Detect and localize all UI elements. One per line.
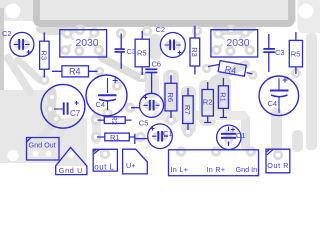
svg-text:C3: C3: [127, 47, 137, 56]
svg-text:R4: R4: [69, 67, 81, 77]
capacitor C1 right symbol: [228, 127, 230, 147]
svg-text:C2: C2: [156, 25, 166, 34]
svg-text:C1: C1: [163, 129, 173, 138]
copper heatsink bracket trace: [37, 0, 292, 24]
wire R4 right leads: [208, 65, 253, 75]
svg-text:R2: R2: [203, 98, 213, 107]
wire R5 left leads: [141, 31, 143, 75]
wire R6 leads: [170, 75, 172, 118]
copper IC pad stubs: [65, 33, 249, 51]
svg-text:C4: C4: [96, 100, 106, 109]
svg-text:R6: R6: [166, 92, 175, 102]
svg-text:R5: R5: [291, 50, 301, 59]
resistor R6: [165, 83, 177, 111]
connector Gnd Out box: [27, 138, 60, 161]
svg-text:R3: R3: [40, 50, 49, 60]
copper bottom-left slab: [0, 90, 50, 163]
wire R2 left leads: [98, 119, 132, 121]
connector out L box: [93, 149, 117, 171]
connector In box: [169, 150, 259, 176]
svg-text:out L: out L: [94, 162, 114, 171]
copper donut pads: [14, 25, 301, 161]
svg-text:C2: C2: [2, 29, 12, 38]
copper traces middle resistor bars: [163, 70, 179, 124]
capacitor C2 left symbol: [14, 39, 31, 54]
capacitor C4 left symbol: [107, 78, 109, 93]
svg-text:R3: R3: [190, 47, 199, 57]
copper pad strip under right IC: [213, 27, 256, 35]
capacitor C6 left symbol: [145, 68, 157, 70]
capacitor C2 right symbol: [165, 44, 181, 46]
capacitor C4 right symbol: [278, 79, 280, 90]
resistor R2 right: [202, 90, 213, 117]
op-amp IC 2030 left: [60, 30, 107, 57]
copper pad strip under left IC: [36, 27, 79, 35]
copper diagonal trace under C4 left: [102, 58, 140, 78]
svg-text:C1: C1: [236, 131, 246, 140]
wire C3 left bottom lead: [120, 52, 122, 68]
op-amp IC 2030 right: [211, 30, 258, 57]
resistor R1 left horizontal: [105, 133, 130, 141]
svg-text:In L+: In L+: [171, 165, 189, 174]
svg-text:2030: 2030: [76, 37, 99, 49]
capacitor C1 left circle: [148, 124, 173, 149]
resistor R5 left: [135, 39, 149, 67]
electrolytic C7 circle: [41, 84, 85, 128]
resistor R3 right: [190, 38, 200, 66]
svg-text:2030: 2030: [227, 37, 250, 49]
svg-text:Gnd U: Gnd U: [59, 166, 83, 175]
resistor R2 left horizontal: [104, 117, 125, 124]
resistor R7: [183, 96, 194, 124]
svg-text:Out R: Out R: [267, 161, 289, 170]
copper top gray slab: [0, 0, 296, 21]
svg-text:C4: C4: [268, 99, 278, 108]
copper left edge band: [0, 8, 4, 162]
capacitor C5 symbol: [144, 104, 160, 106]
capacitor C2 left circle: [10, 32, 34, 56]
svg-text:U+: U+: [126, 161, 135, 170]
capacitor C7 symbol: [54, 108, 63, 110]
svg-text:R1: R1: [110, 133, 120, 142]
electrolytic C4 left circle: [86, 75, 127, 116]
capacitor C2 right circle: [160, 33, 185, 58]
svg-text:C5: C5: [139, 119, 149, 128]
wire R1 left leads: [97, 134, 135, 144]
resistor R4 left: [62, 66, 89, 77]
wire R3 right leads: [194, 26, 196, 75]
wire C5 left lead: [131, 107, 140, 109]
svg-text:R1: R1: [218, 92, 227, 102]
board background: [0, 0, 320, 183]
capacitor C1 left symbol: [152, 135, 168, 137]
wire R2 right leads: [204, 82, 211, 123]
svg-text:R4: R4: [224, 64, 237, 76]
svg-text:C3: C3: [275, 48, 285, 57]
wire R1 right leads: [220, 78, 227, 118]
resistor R3 left: [40, 41, 50, 69]
wire R4 left leads: [52, 70, 98, 72]
wire C1 left lead with bar: [135, 138, 148, 140]
capacitor C3 right symbol: [268, 34, 270, 48]
pad hole top-left: [6, 4, 21, 19]
capacitor C5 circle: [140, 93, 164, 117]
wire R5 right leads: [295, 32, 297, 74]
svg-text:In R+: In R+: [207, 165, 226, 174]
svg-text:C6: C6: [152, 60, 162, 69]
pad hole top-right: [299, 4, 314, 19]
capacitor C3 left symbol: [120, 34, 122, 49]
connector Gnd U pentagon: [56, 147, 87, 174]
wire R7 leads: [187, 88, 189, 130]
connector Out R box: [266, 149, 290, 173]
copper traces right bars: [271, 108, 282, 152]
electrolytic C4 right circle: [259, 76, 299, 116]
connector U+ box: [123, 149, 148, 174]
svg-text:Gnd In: Gnd In: [236, 165, 258, 174]
copper trace under C7: [48, 92, 57, 126]
svg-text:R2: R2: [110, 115, 119, 125]
svg-text:R7: R7: [183, 105, 192, 115]
copper right edge band: [306, 33, 317, 150]
wire R3 left leads: [43, 32, 45, 77]
svg-text:C7: C7: [70, 109, 81, 118]
resistor R5 right: [289, 40, 302, 67]
svg-text:R5: R5: [137, 49, 147, 58]
svg-text:Gnd Out: Gnd Out: [29, 141, 56, 150]
capacitor C1 right circle: [217, 125, 241, 149]
resistor R4 right tilted: [218, 61, 246, 77]
resistor R1 right: [218, 86, 228, 109]
